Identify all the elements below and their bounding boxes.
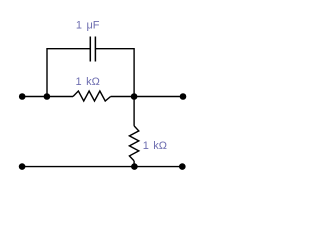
- node terminal top-right: [180, 93, 187, 100]
- svg-text:1 kΩ: 1 kΩ: [143, 140, 167, 152]
- wire bottom rail: [22, 166, 182, 168]
- resistor R1 (horizontal): [73, 91, 111, 101]
- node junction bottom (R2): [131, 163, 138, 170]
- node junction top (R2 tap): [131, 93, 138, 100]
- resistor R2 (vertical): [129, 126, 138, 161]
- wire capacitor branch right: [95, 49, 134, 97]
- node terminal top-left: [19, 93, 26, 100]
- node terminal bottom-right: [179, 163, 186, 170]
- node junction top (cap branch tap): [44, 93, 51, 100]
- wire top rail left segment: [22, 96, 73, 98]
- wire top rail right segment: [111, 96, 183, 98]
- node terminal bottom-left: [19, 163, 26, 170]
- capacitor C1 plates: [90, 37, 95, 62]
- svg-text:1 μF: 1 μF: [76, 20, 100, 32]
- wire capacitor branch left: [47, 49, 90, 97]
- svg-text:1 kΩ: 1 kΩ: [76, 76, 100, 88]
- wire stub junction to R2 top: [133, 97, 135, 126]
- wire stub R2 bottom to junction: [133, 161, 135, 167]
